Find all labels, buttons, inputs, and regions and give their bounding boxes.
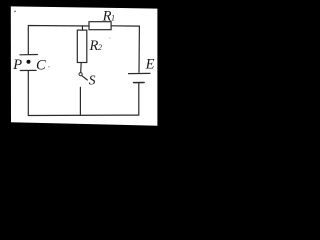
white page <box>11 6 158 125</box>
svg-text:R: R <box>89 38 99 54</box>
battery E plate short <box>134 82 145 84</box>
wire battery to bottom-right corner to bottom-left corner <box>28 83 138 115</box>
svg-text:2: 2 <box>98 43 102 52</box>
svg-text:E: E <box>145 57 155 73</box>
battery E plate long <box>129 72 151 74</box>
faint period after C <box>48 66 49 67</box>
resistor R2 <box>77 30 87 62</box>
node junction: R2 branch tap on top wire <box>81 26 83 30</box>
speck top-left <box>14 11 16 13</box>
wire top-left: top-left corner to R1 <box>28 26 89 54</box>
switch S pivot circle <box>79 73 82 76</box>
wire R2 bottom to switch <box>80 63 83 73</box>
svg-text:S: S <box>89 72 96 87</box>
point charge P dot <box>27 60 31 64</box>
wire R1 right to top-right corner down to battery <box>111 26 139 73</box>
faint speck below R1 <box>109 37 110 38</box>
wire switch to bottom wire <box>79 87 81 115</box>
svg-text:P: P <box>12 57 22 73</box>
black scan border background <box>0 0 170 133</box>
svg-text:C: C <box>36 57 46 73</box>
capacitor C top plate <box>20 54 38 56</box>
capacitor C bottom plate <box>20 69 36 71</box>
resistor R1 <box>89 22 111 30</box>
wire bottom-left up to capacitor <box>27 71 29 116</box>
switch S blade <box>82 76 87 80</box>
svg-text:1: 1 <box>111 13 115 22</box>
